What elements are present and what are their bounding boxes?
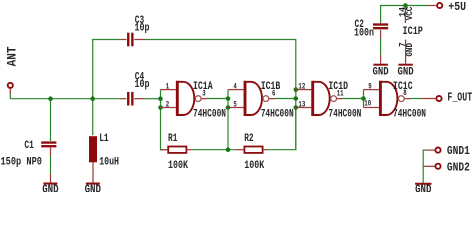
svg-text:F_OUT: F_OUT bbox=[447, 90, 472, 104]
svg-text:9: 9 bbox=[368, 81, 371, 91]
svg-text:150p NP0: 150p NP0 bbox=[1, 156, 43, 168]
wire: IC1B output to IC1D inputs vertical bbox=[274, 90, 296, 150]
ground under C2 bbox=[373, 65, 390, 79]
wire: C3 feedback top net y=39.5 bbox=[93, 40, 296, 99]
svg-text:+5U: +5U bbox=[448, 0, 466, 14]
pin F_OUT connector bbox=[422, 96, 442, 101]
pin stubs C1 bbox=[50, 148, 52, 183]
capacitor C3 bbox=[127, 33, 133, 47]
svg-text:74HC00N: 74HC00N bbox=[193, 109, 226, 121]
wire: IC1A input vertical bbox=[161, 90, 169, 150]
svg-text:6: 6 bbox=[272, 88, 275, 98]
wire: C1 branch bbox=[50, 99, 52, 141]
junction IC1A inputs at main net bbox=[158, 96, 163, 101]
svg-text:100K: 100K bbox=[168, 160, 188, 172]
svg-text:13: 13 bbox=[298, 99, 305, 109]
svg-text:GND: GND bbox=[398, 66, 415, 78]
svg-text:10p: 10p bbox=[135, 23, 150, 35]
wire: main antenna net y=99 bbox=[10, 94, 160, 99]
junction IC1B pin5 bbox=[226, 105, 231, 110]
svg-text:IC1B: IC1B bbox=[261, 81, 281, 93]
capacitor C2 bbox=[373, 23, 388, 29]
wire: GND1 GND2 vertical bbox=[423, 150, 426, 183]
junction IC1A output bbox=[226, 96, 231, 101]
svg-text:12: 12 bbox=[298, 81, 305, 91]
svg-text:GND: GND bbox=[373, 66, 390, 78]
pin +5U supply bbox=[428, 3, 442, 8]
svg-text:8: 8 bbox=[403, 88, 406, 98]
junction R1-R2 node bbox=[226, 147, 231, 152]
svg-text:2: 2 bbox=[166, 99, 169, 109]
pin stubs C2 bbox=[380, 30, 382, 64]
junction IC1D pin12 bbox=[294, 87, 299, 92]
pin stubs IC1C bbox=[364, 90, 411, 108]
svg-text:R2: R2 bbox=[244, 133, 253, 145]
capacitor C4 bbox=[127, 92, 133, 106]
svg-text:GND: GND bbox=[85, 183, 101, 193]
svg-text:11: 11 bbox=[337, 88, 344, 98]
wire: IC1A output to IC1B inputs vertical bbox=[206, 90, 228, 150]
pin GND2 connector bbox=[423, 164, 440, 169]
wire: L1 branch bbox=[92, 99, 94, 136]
op: NAND gate IC1B body bbox=[245, 81, 269, 116]
svg-text:GND: GND bbox=[42, 183, 58, 193]
wire: R1 R2 bottom net y=149.7 bbox=[192, 108, 296, 150]
svg-text:10p: 10p bbox=[135, 79, 150, 91]
op: NAND gate IC1C body bbox=[380, 81, 404, 116]
pin stubs C4 bbox=[121, 98, 145, 100]
junction IC1D pin13 bbox=[294, 105, 299, 110]
svg-text:GND1: GND1 bbox=[447, 144, 470, 158]
wire: C1 to ground bbox=[50, 156, 52, 175]
junction on main net at C1 bbox=[48, 96, 53, 101]
svg-text:GND: GND bbox=[405, 43, 415, 57]
pin stubs IC1D bbox=[296, 90, 343, 108]
svg-text:1: 1 bbox=[166, 81, 169, 91]
svg-text:10uH: 10uH bbox=[99, 156, 119, 168]
wire: IC1D output to IC1C inputs vertical bbox=[342, 90, 364, 108]
op: NAND gate IC1A body bbox=[177, 81, 201, 116]
junction IC1D output bbox=[361, 96, 366, 101]
svg-text:100n: 100n bbox=[354, 28, 374, 40]
pin stubs L1 bbox=[92, 162, 94, 183]
junction VCC supply bbox=[403, 3, 408, 8]
svg-text:74HC00N: 74HC00N bbox=[328, 109, 361, 121]
junction IC1A pin2 bbox=[158, 105, 163, 110]
pin ANT connector bbox=[8, 83, 13, 94]
svg-text:R1: R1 bbox=[168, 133, 178, 145]
capacitor C1 bbox=[41, 141, 56, 147]
pin stubs R2 bbox=[236, 149, 268, 151]
svg-text:4: 4 bbox=[233, 81, 236, 91]
pin stubs R1 bbox=[161, 149, 192, 151]
pin stubs C3 bbox=[121, 39, 145, 41]
svg-text:74HC00N: 74HC00N bbox=[393, 109, 426, 121]
svg-text:IC1P: IC1P bbox=[403, 26, 424, 38]
wire: supply net y=5.5 bbox=[381, 6, 429, 56]
svg-text:VCC: VCC bbox=[405, 6, 415, 20]
resistor R1 bbox=[168, 147, 186, 153]
pin stubs IC1B bbox=[228, 90, 275, 108]
resistor R2 bbox=[244, 147, 262, 153]
ground bottom right bbox=[415, 183, 431, 197]
pin GND1 connector bbox=[426, 148, 440, 153]
svg-text:3: 3 bbox=[202, 88, 205, 98]
svg-text:C1: C1 bbox=[24, 140, 34, 152]
ground under C1 bbox=[42, 183, 58, 197]
inductor L1 bbox=[89, 136, 97, 162]
ground under IC1P pin 7 bbox=[398, 65, 415, 79]
svg-text:74HC00N: 74HC00N bbox=[261, 109, 294, 121]
svg-text:GND: GND bbox=[415, 183, 431, 193]
power pin GND 7 of IC1P bbox=[398, 40, 415, 64]
svg-text:5: 5 bbox=[233, 99, 236, 109]
power pin VCC 14 of IC1P bbox=[398, 6, 415, 24]
svg-text:10: 10 bbox=[364, 99, 371, 109]
op: NAND gate IC1D body bbox=[313, 81, 337, 116]
pin stubs IC1A bbox=[161, 90, 207, 108]
ground under L1 bbox=[85, 183, 101, 197]
wire: IC1C output to F_OUT bbox=[409, 98, 422, 100]
svg-text:L1: L1 bbox=[99, 133, 109, 145]
svg-text:GND2: GND2 bbox=[447, 160, 470, 174]
junction IC1B output bbox=[294, 96, 299, 101]
junction on main net at L1/C3 bbox=[90, 96, 95, 101]
svg-text:ANT: ANT bbox=[6, 46, 20, 66]
svg-text:100K: 100K bbox=[244, 160, 264, 172]
